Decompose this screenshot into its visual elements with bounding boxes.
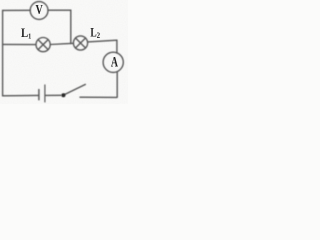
wire: ammeter bottom to bottom wire [116, 72, 118, 98]
wire: mid-left horizontal from rail to lamp L1 [3, 43, 36, 45]
switch S1 blade open [63, 84, 85, 95]
wire: battery to bottom-left corner [3, 94, 39, 96]
node: switch pivot dot [61, 93, 65, 97]
background [0, 0, 128, 104]
wire: top left horizontal to voltmeter [3, 9, 31, 11]
svg-text:A: A [111, 54, 118, 70]
ammeter U2 circle [103, 52, 123, 72]
wire: corner down to ammeter top [116, 40, 118, 53]
battery BT1 long plate [44, 85, 46, 102]
wire: L2 to right corner [88, 40, 117, 42]
lamp L2 circle [73, 36, 87, 50]
lamp L1 cross [38, 40, 48, 50]
wire: bottom-right horizontal to switch contact [80, 96, 117, 98]
battery BT1 short plate [38, 90, 40, 100]
wire: vertical drop from top wire to mid wire [70, 10, 72, 43]
svg-text:V: V [36, 2, 43, 18]
wire: voltmeter to top-right corner [48, 9, 71, 11]
wire: switch pivot to battery [46, 94, 62, 96]
voltmeter U1 circle [30, 2, 48, 20]
wire: left rail vertical [2, 10, 4, 95]
wire: between L1 and L2 [50, 43, 73, 44]
lamp L2 cross [76, 38, 86, 48]
lamp L1 circle [36, 38, 50, 52]
